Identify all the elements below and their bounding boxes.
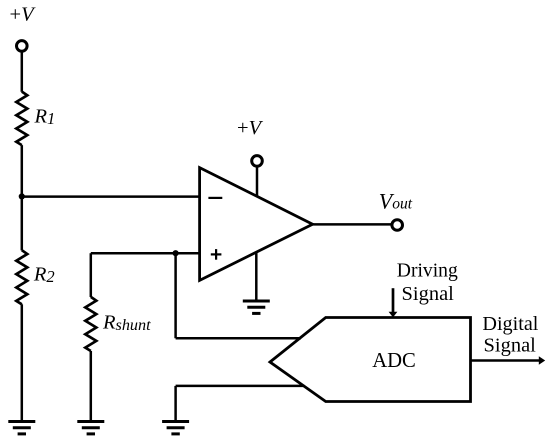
svg-text:+V: +V (237, 117, 264, 139)
svg-text:ADC: ADC (372, 348, 416, 372)
svg-text:R1: R1 (34, 106, 56, 129)
svg-text:+V: +V (10, 3, 37, 25)
svg-text:Driving: Driving (397, 259, 458, 281)
svg-text:Signal: Signal (402, 283, 455, 305)
svg-text:R2: R2 (33, 264, 55, 287)
svg-text:Digital: Digital (482, 313, 538, 335)
svg-text:Signal: Signal (484, 335, 537, 357)
